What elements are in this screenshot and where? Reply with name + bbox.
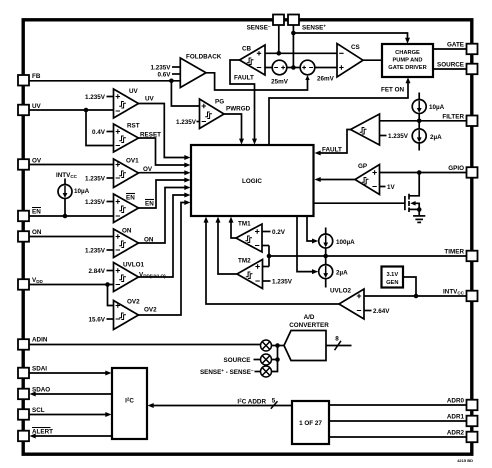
- svg-text:LOGIC: LOGIC: [242, 178, 262, 185]
- svg-text:FILTER: FILTER: [442, 114, 464, 121]
- svg-text:UVLO1: UVLO1: [123, 262, 144, 269]
- svg-text:SOURCE: SOURCE: [437, 62, 464, 69]
- svg-text:1.235V: 1.235V: [85, 94, 106, 101]
- svg-text:FET ON: FET ON: [381, 87, 405, 94]
- svg-text:GATE DRIVER: GATE DRIVER: [388, 65, 426, 71]
- svg-text:EN: EN: [145, 201, 154, 208]
- svg-text:0.4V: 0.4V: [92, 129, 106, 136]
- svg-text:3.1V: 3.1V: [386, 272, 398, 278]
- svg-text:1 OF 27: 1 OF 27: [299, 420, 322, 427]
- svg-text:1.235V: 1.235V: [85, 175, 106, 182]
- svg-text:15.6V: 15.6V: [89, 316, 106, 323]
- svg-text:SENSE+: SENSE+: [302, 24, 326, 32]
- svg-text:UV: UV: [129, 88, 139, 95]
- svg-text:OV2: OV2: [144, 307, 157, 314]
- svg-text:RST: RST: [127, 123, 140, 130]
- svg-text:RESET: RESET: [140, 132, 161, 139]
- svg-text:SDAI: SDAI: [32, 366, 47, 373]
- svg-text:25mV: 25mV: [271, 79, 289, 86]
- svg-text:ON: ON: [144, 237, 154, 244]
- svg-text:ON: ON: [32, 229, 42, 236]
- svg-text:ADR1: ADR1: [447, 414, 465, 421]
- svg-text:2µA: 2µA: [336, 269, 348, 276]
- svg-text:1.235V: 1.235V: [85, 199, 106, 206]
- svg-text:8: 8: [335, 336, 339, 343]
- svg-text:0.2V: 0.2V: [272, 229, 286, 236]
- svg-text:UVLO2: UVLO2: [330, 288, 351, 295]
- svg-text:GATE: GATE: [447, 42, 464, 49]
- svg-text:26mV: 26mV: [317, 76, 335, 83]
- svg-text:I2C ADDR: I2C ADDR: [237, 398, 266, 406]
- svg-text:CONVERTER: CONVERTER: [289, 322, 329, 329]
- svg-text:OV: OV: [143, 166, 153, 173]
- svg-text:4215 BD: 4215 BD: [457, 458, 473, 463]
- svg-text:PG: PG: [215, 99, 224, 106]
- svg-text:10µA: 10µA: [74, 188, 90, 195]
- svg-text:ADR0: ADR0: [447, 398, 465, 405]
- svg-text:SOURCE: SOURCE: [224, 357, 251, 364]
- svg-text:CB: CB: [242, 46, 252, 53]
- svg-text:TIMER: TIMER: [444, 249, 464, 256]
- svg-text:2.84V: 2.84V: [89, 268, 106, 275]
- svg-text:10µA: 10µA: [429, 104, 445, 111]
- svg-text:FAULT: FAULT: [322, 147, 342, 154]
- svg-text:EN: EN: [126, 195, 135, 202]
- svg-text:OV2: OV2: [127, 299, 140, 306]
- svg-text:UV: UV: [32, 103, 42, 110]
- svg-text:SDAO: SDAO: [32, 387, 50, 394]
- svg-text:1.235V: 1.235V: [176, 119, 197, 126]
- svg-text:CS: CS: [351, 44, 360, 51]
- svg-text:2µA: 2µA: [430, 134, 442, 141]
- svg-text:FAULT: FAULT: [234, 75, 254, 82]
- svg-text:OV: OV: [32, 158, 42, 165]
- svg-text:100µA: 100µA: [336, 239, 355, 246]
- svg-text:1.235V: 1.235V: [85, 247, 106, 254]
- svg-text:PWRGD: PWRGD: [226, 106, 251, 113]
- svg-text:ADR2: ADR2: [447, 430, 465, 437]
- svg-text:TM1: TM1: [238, 221, 251, 228]
- svg-text:GPIO: GPIO: [448, 165, 464, 172]
- svg-text:SENSE–: SENSE–: [247, 24, 271, 32]
- svg-text:2.64V: 2.64V: [373, 308, 390, 315]
- svg-text:GEN: GEN: [386, 280, 398, 286]
- svg-text:CHARGE: CHARGE: [395, 50, 420, 56]
- svg-text:ALERT: ALERT: [32, 429, 53, 436]
- svg-text:0.6V: 0.6V: [158, 71, 172, 78]
- svg-text:PUMP AND: PUMP AND: [392, 58, 422, 64]
- svg-text:ON: ON: [122, 228, 132, 235]
- svg-text:OV1: OV1: [126, 158, 139, 165]
- svg-text:TM2: TM2: [238, 258, 251, 265]
- svg-text:5: 5: [272, 398, 276, 405]
- svg-text:A/D: A/D: [304, 314, 315, 321]
- svg-text:1V: 1V: [387, 184, 396, 191]
- svg-text:1.235V: 1.235V: [272, 278, 293, 285]
- svg-text:I2C: I2C: [125, 397, 134, 405]
- svg-text:SCL: SCL: [32, 407, 45, 414]
- svg-text:FOLDBACK: FOLDBACK: [186, 53, 222, 60]
- svg-text:1.235V: 1.235V: [388, 133, 409, 140]
- svg-text:FB: FB: [32, 73, 41, 80]
- svg-text:SENSE+ - SENSE–: SENSE+ - SENSE–: [200, 368, 254, 376]
- svg-text:EN: EN: [32, 209, 41, 216]
- svg-text:UV: UV: [145, 96, 155, 103]
- svg-text:GP: GP: [358, 163, 367, 170]
- svg-text:ADIN: ADIN: [32, 337, 48, 344]
- svg-text:1.235V: 1.235V: [151, 64, 172, 71]
